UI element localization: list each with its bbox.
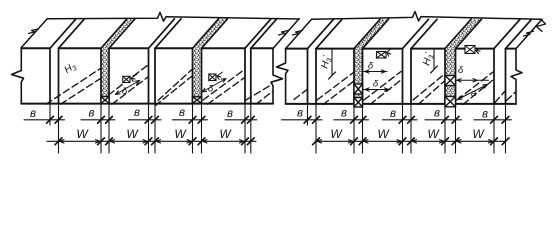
- W dimension arrowheads: [156, 140, 160, 143]
- extension line below joint 5 left: [244, 104, 246, 153]
- svg-text:δ: δ: [208, 84, 214, 95]
- hidden dashed line panel L-P4 upper: [158, 69, 193, 101]
- stipple between keys RJ4: [446, 86, 455, 97]
- shear key box in joint RJ4: [445, 97, 456, 107]
- joint RJ5 right edge: [505, 49, 507, 104]
- extension line below joint 1 left: [49, 104, 51, 125]
- extension line below joint 3 right: [410, 104, 412, 153]
- panel L5 front top edge: [202, 47, 246, 49]
- shear key detail box panel R-P3: [377, 52, 387, 59]
- joint RJ2 right edge: [362, 49, 364, 104]
- hidden dashed line panel R-P3 lower: [370, 80, 402, 105]
- dimension line for joint width b, joint 5: [474, 119, 512, 121]
- joint RJ4 left edge: [444, 49, 446, 104]
- hidden dashed line panel R-P1: [294, 90, 307, 100]
- extension line below joint 2 right: [362, 104, 364, 153]
- svg-text:W: W: [472, 127, 485, 141]
- right wall: panel R-P6 top-right slant edge: [516, 19, 542, 48]
- joint RJ4 top-face slant lines: [445, 19, 471, 48]
- hidden dashed line panel R-P3 upper: [364, 72, 401, 101]
- svg-text:в: в: [390, 108, 396, 120]
- hidden dashed line panel L-P5 lower: [208, 77, 246, 104]
- dimension line for joint width b, joint 3: [383, 119, 418, 121]
- svg-text:в: в: [434, 108, 440, 120]
- panel R5 front top edge: [456, 48, 495, 50]
- dimension line for joint width b, joint 1: [282, 119, 323, 121]
- svg-text:в: в: [30, 108, 36, 120]
- extension line below joint 2 left: [100, 104, 102, 153]
- svg-text:в: в: [88, 108, 94, 120]
- grout stipple strip joint LJ4 (front): [193, 48, 202, 97]
- joint LJ2 top-face slant lines: [101, 19, 127, 49]
- hidden dashed line panel R-P2 lower: [323, 81, 354, 105]
- a dimension arrow R-P5: [458, 85, 488, 100]
- joint LJ1 right edge: [58, 48, 60, 103]
- joint LJ5 top-face slant lines: [245, 19, 271, 49]
- dimension line for joint width b, joint 4: [173, 119, 208, 121]
- joint LJ3 left edge: [148, 48, 150, 103]
- leader arrow to key detail R-P5: [476, 49, 480, 51]
- svg-text:W: W: [126, 127, 139, 141]
- svg-text:в: в: [227, 108, 233, 120]
- dimension line for joint width b, joint 5: [225, 119, 257, 121]
- extension line below joint 4 left: [192, 104, 194, 153]
- W dimension line: [316, 140, 506, 142]
- hidden dashed line panel L-P6 upper: [246, 84, 273, 100]
- grout stipple band joint RJ2 (top face): [354, 19, 389, 48]
- svg-text:W: W: [427, 127, 440, 141]
- joint LJ5 left edge: [244, 48, 246, 103]
- extension line below joint 4 right: [201, 104, 203, 153]
- shear key box in joint RJ4: [445, 76, 456, 86]
- right wall back top edge with break: [312, 12, 541, 22]
- joint RJ1 left edge: [307, 49, 309, 104]
- joint RJ3 right edge: [410, 49, 412, 104]
- shear key box in joint LJ4: [193, 97, 202, 103]
- grout stipple band joint RJ4 (top face): [445, 19, 482, 48]
- joint RJ2 top-face slant lines: [354, 19, 380, 48]
- break tick on R-P1 slant edge: [293, 30, 303, 35]
- extension line below joint 5 right: [505, 104, 507, 153]
- H3-prime vertical dimension line panel R-P2: [331, 50, 333, 76]
- right wall: panel R-P6 right edge with break: [511, 49, 522, 104]
- stipple between keys RJ2: [355, 94, 362, 98]
- svg-text:а: а: [471, 88, 476, 99]
- hidden dashed line panel L-P3 lower: [112, 77, 149, 105]
- dimension line for joint width b, joint 2: [81, 119, 115, 121]
- hidden dashed line panel L-P6 lower: [256, 91, 273, 104]
- panel R2 front top edge: [316, 48, 354, 50]
- left wall back top edge with break: [47, 12, 299, 21]
- panel R6 front top edge: [506, 48, 517, 50]
- grout stipple band joint LJ2 (top face): [101, 19, 135, 49]
- panel L4 front top edge: [155, 47, 193, 49]
- extension line below joint 3 right: [154, 104, 156, 153]
- shear key detail box panel R-P5: [465, 46, 475, 54]
- joint LJ2 left edge: [100, 48, 102, 103]
- joint LJ3 right edge: [154, 48, 156, 103]
- left wall: panel L-P1 top-left slant edge: [21, 19, 47, 48]
- joint RJ1 right edge: [315, 49, 317, 104]
- joint LJ2 right edge: [108, 48, 110, 103]
- extension line below joint 3 left: [402, 104, 404, 153]
- panel L3 front top edge: [109, 47, 149, 49]
- W dimension arrowheads: [203, 140, 207, 143]
- dimension line for joint width b, joint 4: [425, 119, 462, 121]
- joint RJ2 left edge: [353, 49, 355, 104]
- shear key box in joint LJ2: [101, 97, 109, 104]
- hidden dashed line panel R-P4 upper: [413, 74, 445, 100]
- panel R1 front top edge: [286, 48, 308, 50]
- svg-text:W: W: [76, 127, 89, 141]
- hidden dashed line panel L-P4 lower: [155, 75, 193, 106]
- panel R3 front top edge: [363, 48, 403, 50]
- delta dimension arrow L-P5: [202, 79, 226, 93]
- W dimension arrowheads: [110, 140, 114, 143]
- W dimension arrowheads: [412, 140, 416, 143]
- W dimension arrowheads: [364, 140, 368, 143]
- hidden dashed line panel R-P5 lower: [463, 80, 494, 105]
- joint RJ1 top-face slant lines: [308, 19, 334, 48]
- extension line below joint 2 right: [108, 104, 110, 153]
- hidden dashed line panel R-P6: [507, 92, 516, 101]
- extension line below joint 1 left: [307, 104, 309, 125]
- joint LJ1 top-face slant lines: [50, 19, 76, 49]
- joint LJ4 right edge: [201, 48, 203, 103]
- svg-text:W: W: [219, 127, 232, 141]
- leader arrow to key detail L-P3: [131, 75, 137, 79]
- svg-text:в: в: [134, 107, 140, 119]
- joint LJ4 left edge: [192, 48, 194, 103]
- right wall: panel R-P1 left edge with break: [277, 49, 289, 104]
- dimension line for joint width b, joint 1: [24, 119, 65, 121]
- extension line below joint 2 left: [353, 104, 355, 153]
- shear key box in joint RJ2: [354, 84, 363, 94]
- svg-text:в: в: [341, 108, 347, 120]
- joint RJ4 right edge: [455, 49, 457, 104]
- extension line below joint 3 left: [148, 104, 150, 153]
- W dimension arrowheads: [60, 140, 64, 143]
- hidden dashed line panel L-P2 upper: [46, 69, 101, 105]
- svg-text:W: W: [174, 127, 187, 141]
- joint RJ5 left edge: [493, 49, 495, 104]
- extension line below joint 4 right: [455, 104, 457, 153]
- svg-text:δ: δ: [368, 61, 374, 72]
- left wall: panel L-P6 right edge with break: [271, 49, 283, 104]
- dimension line for joint width b, joint 3: [129, 119, 162, 121]
- break zigzag at right end of back edge: [537, 19, 546, 31]
- svg-text:в: в: [179, 107, 185, 119]
- key level line upper R-P5: [456, 79, 489, 81]
- svg-text:в: в: [297, 108, 303, 120]
- grout stipple band joint LJ4 (top face): [193, 19, 228, 49]
- left wall: panel L-P1 left edge with break: [12, 48, 24, 104]
- W dimension arrowheads: [317, 140, 321, 143]
- left wall: panel L-P6 top-right slant edge: [273, 19, 299, 49]
- hidden dashed line panel R-P5 upper: [457, 72, 493, 100]
- grout stipple strip joint RJ2 (front): [354, 49, 363, 84]
- dimension line for joint width b, joint 2: [334, 119, 369, 121]
- joint LJ5 right edge: [250, 48, 252, 103]
- grout stipple strip joint RJ4 (front): [445, 49, 456, 76]
- key level line upper R-P3: [364, 71, 388, 73]
- H3-prime vertical dimension line panel R-P4: [433, 50, 435, 70]
- shear key detail box panel L-P3: [123, 76, 130, 82]
- svg-text:δ: δ: [373, 79, 379, 90]
- L panels bottom edge: [21, 103, 273, 105]
- hidden dashed line panel L-P3 upper: [109, 65, 149, 96]
- W dimension line: [47, 140, 256, 142]
- hidden dashed line across joint R-J5: [495, 92, 505, 103]
- extension line below joint 1 right: [315, 104, 317, 153]
- extension line below joint 1 right: [58, 104, 60, 153]
- break tick on L-P6 slant edge: [279, 30, 289, 35]
- W dimension arrowheads: [457, 140, 461, 143]
- joint LJ3 top-face slant lines: [149, 19, 175, 49]
- leader arrow to key detail R-P3: [387, 48, 392, 53]
- shear key box in joint RJ2: [354, 98, 363, 108]
- panel R4 front top edge: [411, 48, 445, 50]
- hidden dashed line panel L-P2 lower: [61, 79, 101, 105]
- key level line lower R-P3: [364, 89, 391, 91]
- hidden dashed line panel R-P4 lower: [418, 81, 445, 105]
- svg-text:W: W: [330, 127, 343, 141]
- panel L1 front top edge: [21, 47, 50, 49]
- extension line below joint 5 left: [493, 104, 495, 153]
- joint LJ1 left edge: [49, 48, 51, 103]
- break tick on R-P6 slant edge: [524, 31, 534, 36]
- joint RJ3 left edge: [402, 49, 404, 104]
- right wall: panel R-P1 top-left slant edge: [286, 19, 312, 48]
- hidden dashed line panel L-P5 upper: [203, 70, 245, 101]
- grout stipple strip joint LJ2 (front): [101, 48, 109, 96]
- delta dimension arrow L-P3: [116, 81, 140, 95]
- shear key detail box panel L-P5: [209, 74, 216, 81]
- panel L2 front top edge: [59, 47, 102, 49]
- leader arrow to key detail L-P5: [217, 72, 223, 76]
- panel L6 front top edge: [251, 47, 273, 49]
- svg-text:W: W: [377, 127, 390, 141]
- break tick on L-P1 slant edge: [29, 29, 39, 34]
- hidden dashed line panel R-P2 upper: [317, 73, 354, 101]
- joint RJ3 top-face slant lines: [403, 19, 429, 48]
- svg-text:в: в: [482, 109, 488, 121]
- joint RJ5 top-face slant lines: [494, 19, 520, 48]
- extension line below joint 5 right: [250, 104, 252, 153]
- joint LJ4 top-face slant lines: [193, 19, 219, 49]
- R panels bottom edge: [286, 103, 516, 105]
- svg-text:δ: δ: [458, 65, 464, 76]
- extension line below joint 4 left: [444, 104, 446, 153]
